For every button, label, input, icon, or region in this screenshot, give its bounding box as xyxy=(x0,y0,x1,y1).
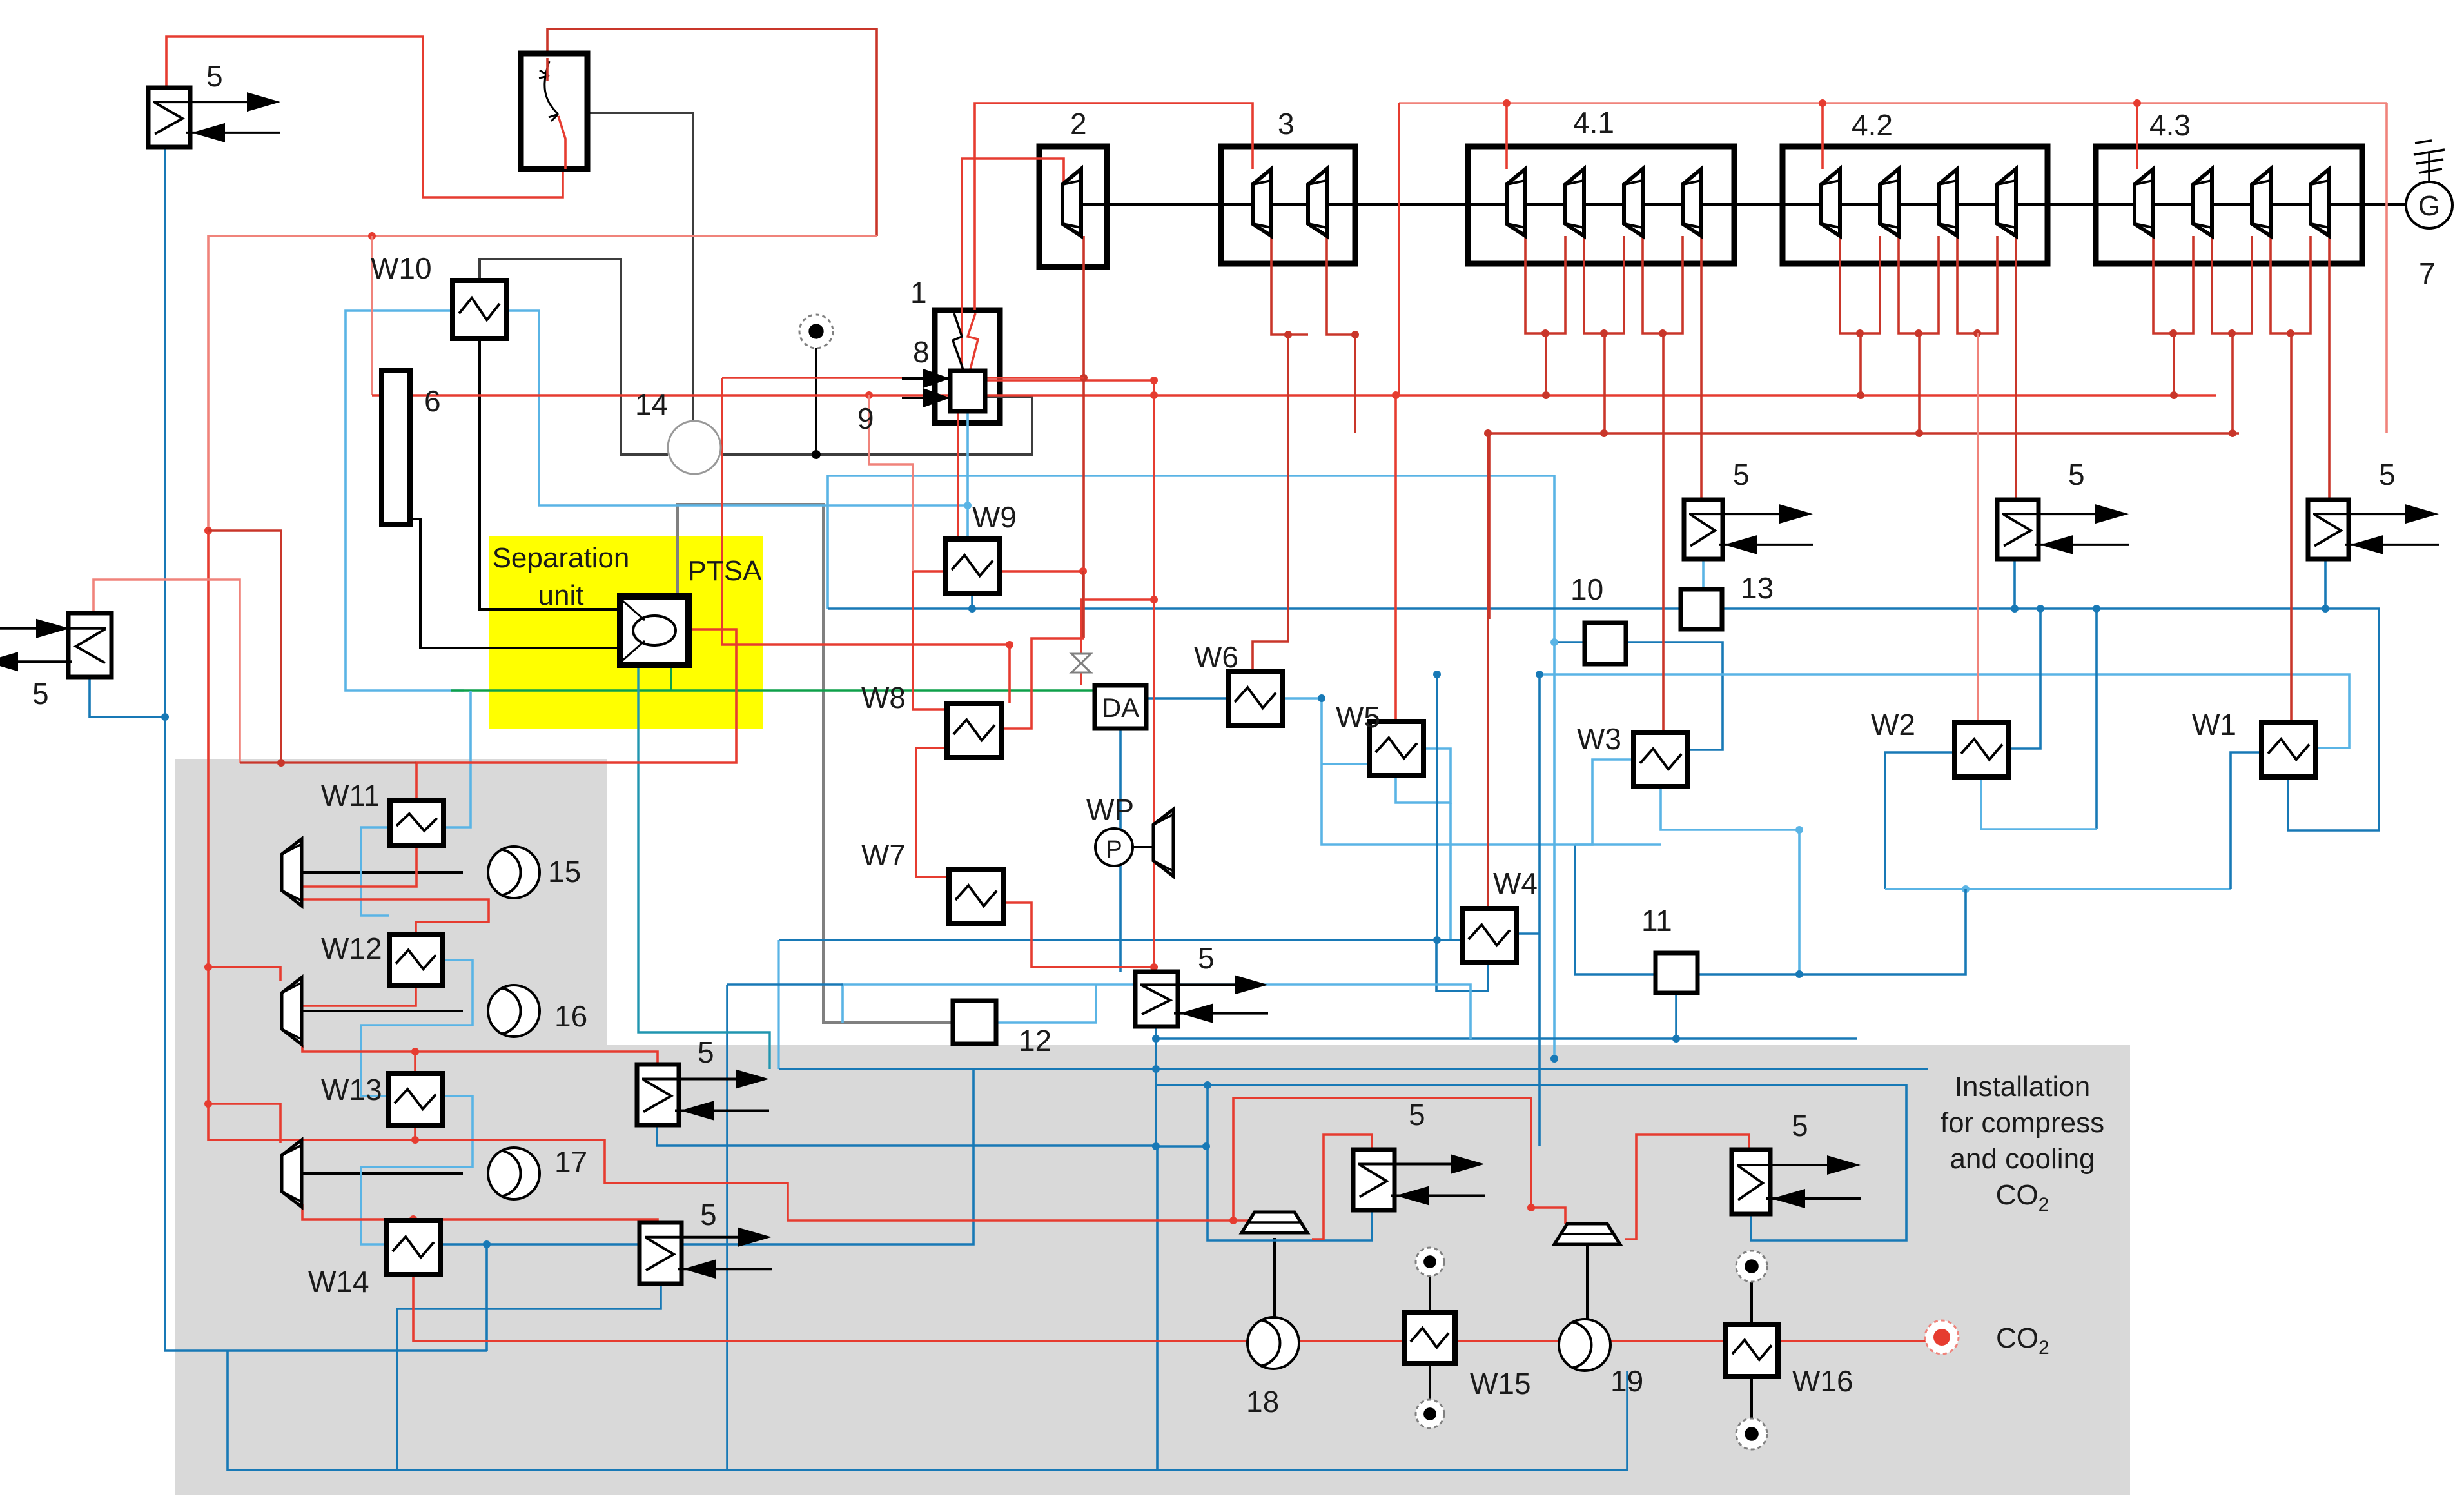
svg-text:5: 5 xyxy=(1733,458,1750,491)
svg-text:16: 16 xyxy=(554,999,587,1033)
svg-text:W9: W9 xyxy=(972,500,1017,534)
svg-text:7: 7 xyxy=(2419,257,2436,290)
svg-text:18: 18 xyxy=(1246,1385,1279,1418)
svg-text:P: P xyxy=(1106,836,1122,863)
svg-text:W3: W3 xyxy=(1577,722,1621,756)
svg-text:5: 5 xyxy=(2379,458,2396,491)
svg-text:5: 5 xyxy=(1409,1098,1425,1132)
svg-text:14: 14 xyxy=(635,387,668,421)
svg-text:4.3: 4.3 xyxy=(2149,108,2191,142)
svg-text:17: 17 xyxy=(554,1145,587,1179)
svg-text:Separation: Separation xyxy=(493,542,630,574)
svg-text:G: G xyxy=(2418,190,2440,222)
svg-text:1: 1 xyxy=(910,276,927,309)
svg-text:W8: W8 xyxy=(861,681,906,714)
svg-text:unit: unit xyxy=(538,580,584,611)
svg-text:and cooling: and cooling xyxy=(1950,1143,2095,1175)
svg-text:5: 5 xyxy=(2068,458,2085,491)
svg-text:W12: W12 xyxy=(321,932,382,965)
svg-text:PTSA: PTSA xyxy=(688,555,763,587)
svg-text:WP: WP xyxy=(1086,793,1134,827)
svg-text:19: 19 xyxy=(1610,1364,1643,1398)
svg-text:2: 2 xyxy=(1070,107,1087,141)
svg-text:9: 9 xyxy=(857,402,874,435)
svg-text:W4: W4 xyxy=(1493,867,1538,900)
svg-text:10: 10 xyxy=(1570,573,1603,606)
svg-text:W7: W7 xyxy=(861,838,906,872)
svg-text:6: 6 xyxy=(424,384,441,418)
svg-text:11: 11 xyxy=(1641,904,1672,937)
svg-text:5: 5 xyxy=(1792,1109,1808,1142)
svg-text:13: 13 xyxy=(1741,571,1774,605)
svg-text:12: 12 xyxy=(1019,1024,1051,1057)
svg-text:W15: W15 xyxy=(1470,1367,1531,1400)
svg-text:Installation: Installation xyxy=(1955,1071,2090,1103)
svg-text:5: 5 xyxy=(32,677,49,711)
svg-text:5: 5 xyxy=(206,59,223,93)
svg-text:8: 8 xyxy=(913,335,930,369)
svg-text:W13: W13 xyxy=(321,1073,382,1106)
svg-text:4.2: 4.2 xyxy=(1852,108,1893,142)
svg-text:5: 5 xyxy=(1198,941,1215,975)
svg-text:5: 5 xyxy=(700,1198,717,1231)
svg-text:W16: W16 xyxy=(1792,1364,1853,1398)
svg-text:W6: W6 xyxy=(1194,640,1238,674)
svg-text:for compress: for compress xyxy=(1941,1107,2104,1139)
svg-text:W11: W11 xyxy=(321,779,380,812)
svg-text:W2: W2 xyxy=(1871,708,1915,741)
svg-text:W5: W5 xyxy=(1336,700,1380,734)
svg-text:15: 15 xyxy=(548,855,581,888)
svg-text:W14: W14 xyxy=(308,1265,369,1299)
svg-text:W1: W1 xyxy=(2192,708,2236,741)
svg-text:5: 5 xyxy=(698,1035,714,1069)
svg-text:3: 3 xyxy=(1278,107,1295,141)
svg-text:4.1: 4.1 xyxy=(1573,106,1614,139)
svg-text:DA: DA xyxy=(1102,692,1139,723)
svg-text:W10: W10 xyxy=(371,251,432,285)
